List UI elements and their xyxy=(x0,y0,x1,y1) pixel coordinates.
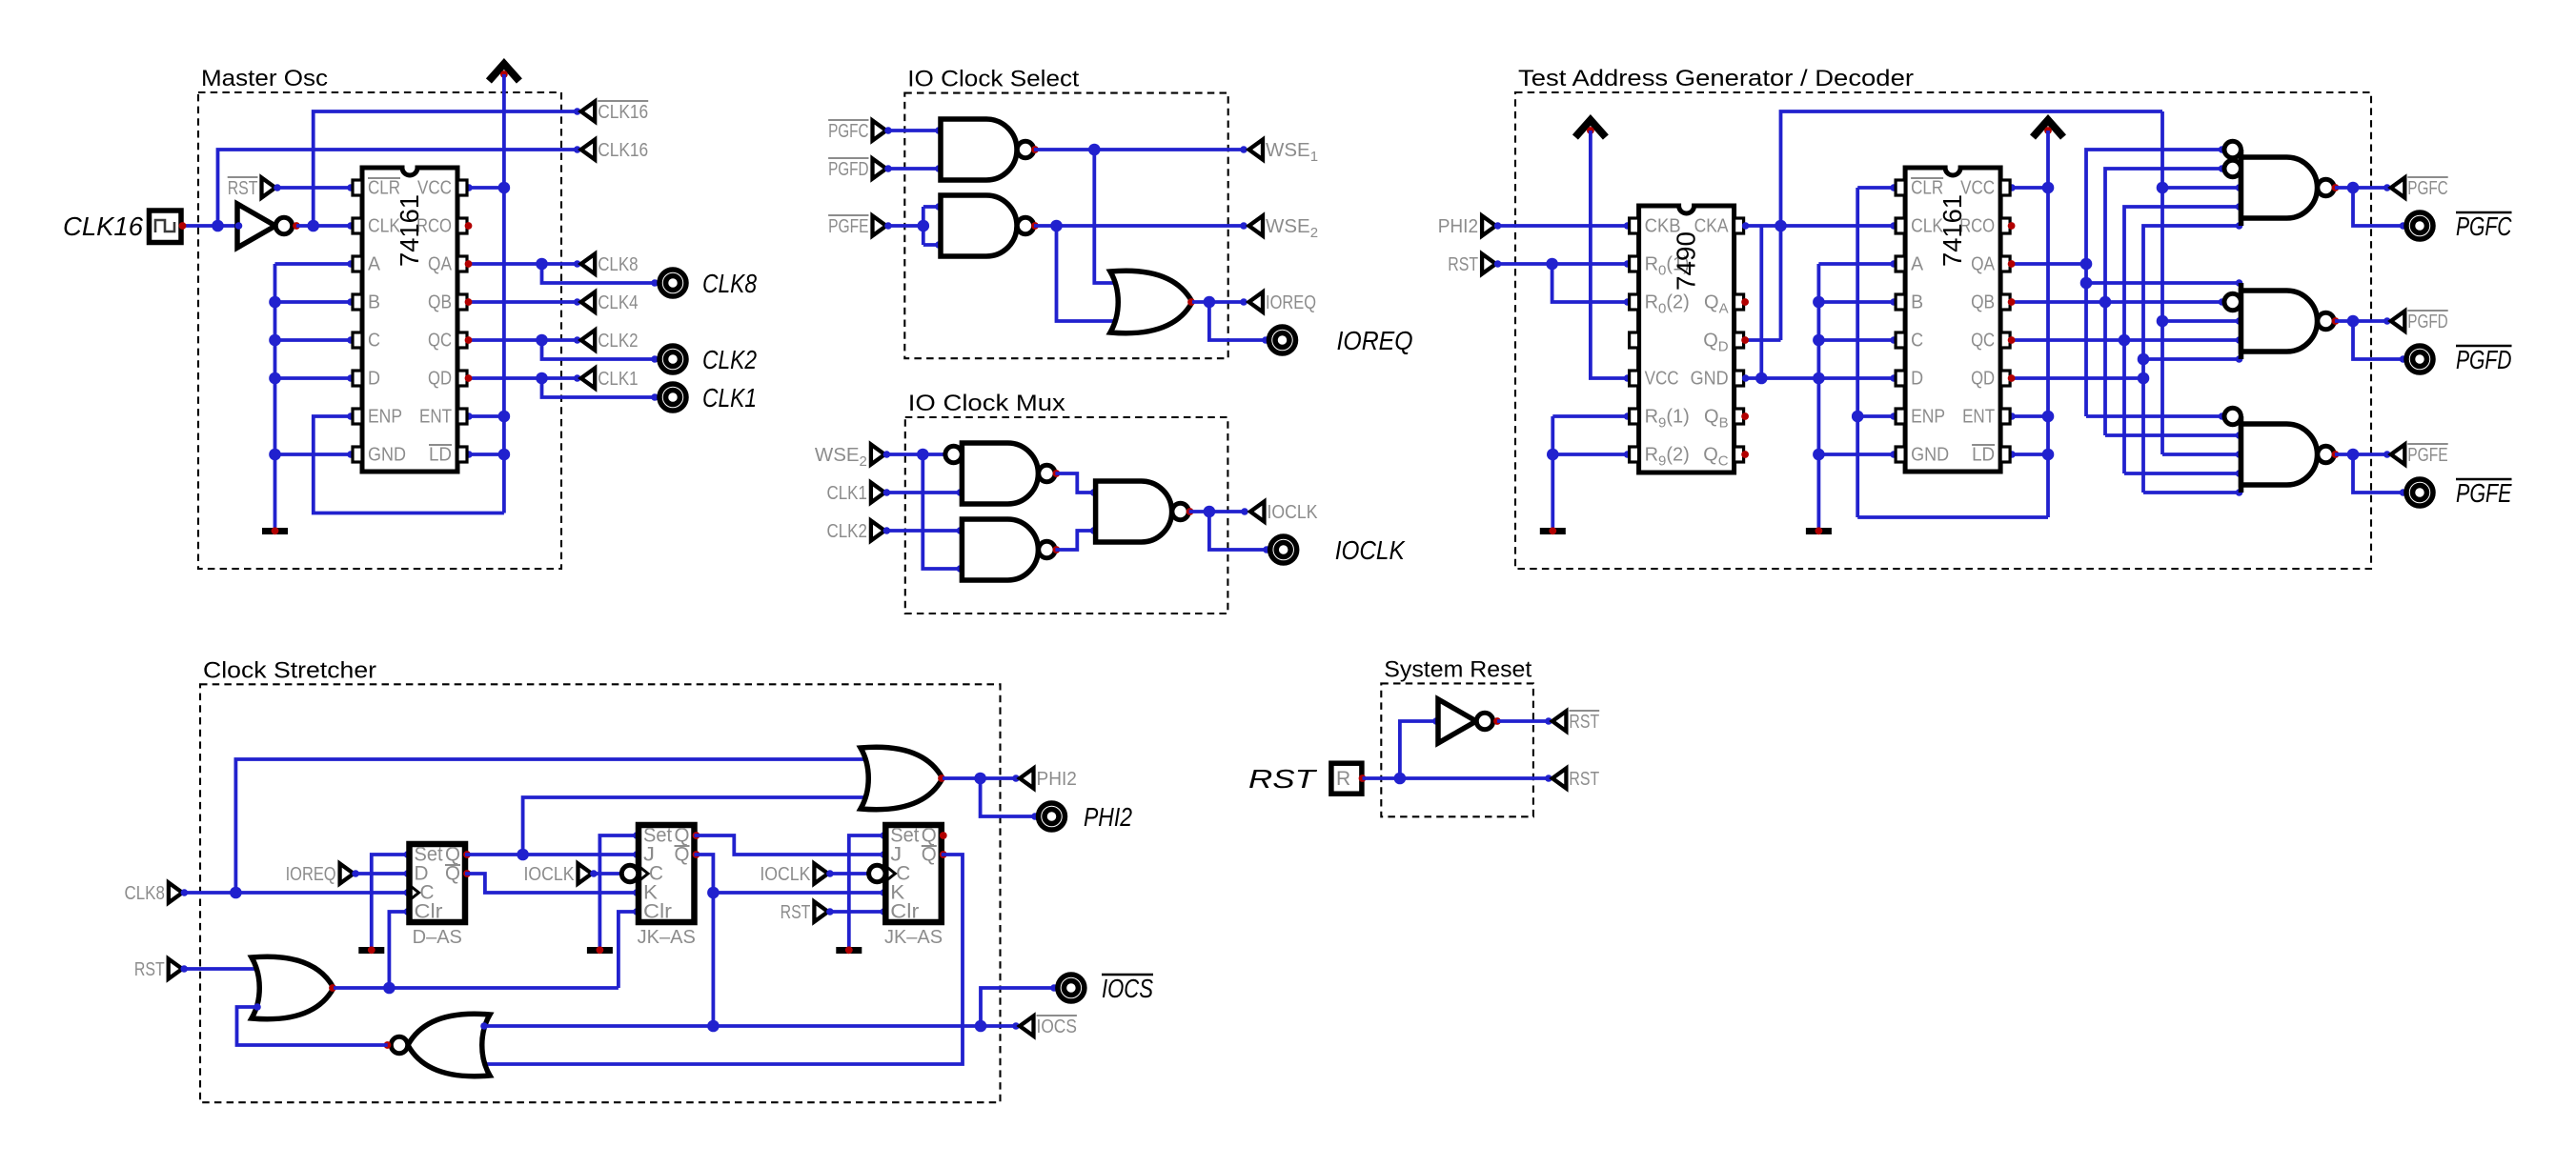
junction xyxy=(2157,182,2169,194)
NAND gate U3 (WSE2) xyxy=(941,195,1039,256)
wire nCLK16 to tunnel xyxy=(314,111,579,226)
svg-text:CLK4: CLK4 xyxy=(598,292,638,313)
net tunnel IOREQ (output) xyxy=(1249,292,1317,313)
wire IOREQ to ring xyxy=(1209,302,1268,340)
wire inverter to CLK pin xyxy=(296,224,353,228)
wire to NAND2 in2 xyxy=(923,243,941,247)
svg-text:IOREQ: IOREQ xyxy=(1266,292,1316,313)
svg-text:JK–AS: JK–AS xyxy=(638,927,696,948)
wire WSE1 xyxy=(1034,148,1246,151)
net tunnel PGFC (input) xyxy=(828,120,886,142)
wire IOCS to ring xyxy=(981,988,1056,1026)
junction xyxy=(2099,296,2112,309)
junction xyxy=(536,372,548,385)
OR gate U10 (clr OR) xyxy=(252,956,336,1019)
wire to JK2 K xyxy=(713,891,885,895)
wire CKA xyxy=(1744,224,1781,228)
wire GND row to D xyxy=(1744,376,1897,380)
section frame: Test Address Generator / Decoder xyxy=(1515,66,2371,569)
svg-text:74161: 74161 xyxy=(1937,194,1967,267)
wire QC to CLK2 ring xyxy=(542,340,658,359)
power symbol VCC supply (7490) xyxy=(1575,120,1606,137)
svg-text:R: R xyxy=(1336,768,1350,790)
junction xyxy=(2080,258,2093,271)
wire Q to J xyxy=(465,853,639,856)
label CLK2 port label xyxy=(702,345,757,374)
svg-text:IOCS: IOCS xyxy=(1037,1016,1077,1037)
ground (JK2) xyxy=(836,946,862,954)
wire F to P3 xyxy=(2162,453,2241,456)
svg-text:D–AS: D–AS xyxy=(413,927,462,948)
svg-text:Master Osc: Master Osc xyxy=(201,66,328,91)
wire to A xyxy=(275,262,354,266)
wire QD7490 riser + top bus xyxy=(1781,111,2163,340)
wire RST to OR xyxy=(182,967,259,971)
wire to PGFD ring xyxy=(2353,321,2405,359)
NAND gate P2 (PGFD decode) xyxy=(2224,283,2339,359)
wire CLK8 to OR in1 xyxy=(235,759,868,893)
wire LD xyxy=(2010,453,2048,456)
label PHI2 port label xyxy=(1084,802,1132,832)
pin QA 7490 unconnected xyxy=(1741,298,1749,306)
junction xyxy=(498,449,511,461)
ground (7490) xyxy=(1540,527,1566,534)
wire QD to CLK1 ring xyxy=(542,378,658,397)
wire F vertical xyxy=(2160,111,2164,454)
output port PGFD xyxy=(2406,346,2433,372)
net tunnel CLK1 (output) xyxy=(581,368,639,390)
wire JK1 Set to gnd xyxy=(599,835,639,947)
svg-text:QA: QA xyxy=(428,254,453,275)
svg-text:Clr: Clr xyxy=(890,901,919,923)
svg-text:B: B xyxy=(1911,292,1923,313)
junction xyxy=(1394,773,1407,785)
junction xyxy=(1546,258,1558,271)
wire PGFE split xyxy=(922,207,925,245)
wire CKA down xyxy=(1759,226,1763,378)
junction xyxy=(1775,220,1787,232)
junction xyxy=(498,182,511,194)
output port IOCS xyxy=(1058,975,1085,1001)
junction xyxy=(2157,315,2169,328)
svg-text:IO Clock Mux: IO Clock Mux xyxy=(908,391,1065,416)
svg-text:CLK16: CLK16 xyxy=(598,139,648,161)
wire to CLK xyxy=(1781,224,1897,228)
wire ABCD bus vertical xyxy=(1817,264,1821,528)
wire B out to C xyxy=(1055,531,1095,550)
junction xyxy=(383,982,396,995)
wire JK2 nQ to NOR2 xyxy=(482,855,963,1064)
wire QC xyxy=(467,338,542,342)
junction xyxy=(1813,449,1825,461)
net tunnel PHI2 (input) xyxy=(1438,215,1496,237)
net tunnel IOCLK (input) 1 xyxy=(524,863,593,885)
label CLK16 source label xyxy=(63,211,143,241)
wire QC to CLK2 tunnel xyxy=(542,338,579,342)
wire RST to CLR xyxy=(275,186,353,190)
output port CLK8 xyxy=(659,270,686,296)
svg-text:PHI2: PHI2 xyxy=(1438,215,1478,237)
wire RST to inverter xyxy=(1400,721,1438,778)
wire clock to inverter xyxy=(181,224,237,228)
net tunnel IOCS (output) xyxy=(1020,1016,1077,1037)
svg-text:CLK2: CLK2 xyxy=(598,330,638,352)
wire VCC pin xyxy=(2010,186,2048,190)
power symbol VCC supply (74161) xyxy=(2033,120,2063,137)
svg-text:QD: QD xyxy=(1971,369,1995,390)
svg-text:PHI2: PHI2 xyxy=(1084,802,1132,832)
wire QC to P2 xyxy=(2124,338,2241,342)
NAND gate U5 (mux A) xyxy=(945,443,1060,504)
junction xyxy=(269,449,281,461)
wire IOCLK to ring xyxy=(1209,512,1268,550)
junction xyxy=(2080,277,2093,290)
wire VCC pin xyxy=(467,186,504,190)
clock source CLK16 xyxy=(150,211,182,243)
junction xyxy=(517,849,529,861)
svg-text:ENT: ENT xyxy=(1962,407,1995,428)
wire CLK1 xyxy=(884,491,962,494)
wire D-FF Clr xyxy=(389,912,409,988)
svg-text:A: A xyxy=(368,254,381,275)
svg-text:CLK2: CLK2 xyxy=(827,520,867,542)
svg-text:CLK1: CLK1 xyxy=(598,368,638,390)
wire PGFE xyxy=(886,224,923,228)
wire PHI2 to CKB xyxy=(1496,224,1630,228)
flip-flop FF1 D-AS xyxy=(410,844,471,949)
label CLK1 port label xyxy=(702,383,757,412)
net tunnel CLK4 (output) xyxy=(581,292,639,313)
pin QC 7490 unconnected xyxy=(1741,451,1749,458)
output port CLK1 xyxy=(659,384,686,411)
net tunnel RST (input) xyxy=(134,958,182,980)
svg-text:GND: GND xyxy=(1911,445,1949,466)
svg-text:B: B xyxy=(368,292,380,313)
junction xyxy=(230,887,242,899)
svg-text:VCC: VCC xyxy=(1645,369,1679,390)
net tunnel RST (input) 2 xyxy=(781,901,828,923)
label PGFE port label xyxy=(2456,478,2512,508)
wire NOR2 out to OR in2 xyxy=(237,1007,388,1045)
wire QD xyxy=(2010,376,2143,380)
section frame: Clock Stretcher xyxy=(200,657,1001,1102)
wire RST to R0(1) xyxy=(1496,262,1630,266)
svg-text:LD: LD xyxy=(1972,445,1995,466)
svg-text:PGFE: PGFE xyxy=(828,215,868,237)
net tunnel RST (output) xyxy=(1552,768,1600,790)
junction CLK16-inv net xyxy=(307,220,319,232)
NAND gate U6 (mux B) xyxy=(962,519,1060,580)
output port IOCLK xyxy=(1270,536,1297,563)
svg-text:D: D xyxy=(1911,369,1923,390)
junction xyxy=(1852,411,1864,423)
junction xyxy=(536,258,548,271)
label IOCLK port label xyxy=(1335,535,1406,565)
wire IOREQ to D xyxy=(354,872,409,875)
ground (D-FF) xyxy=(358,946,384,954)
junction xyxy=(536,334,548,347)
svg-text:QA: QA xyxy=(1971,254,1996,275)
wire QD to P3 xyxy=(2143,491,2241,494)
net tunnel RST (input) xyxy=(228,177,275,199)
junction xyxy=(1813,296,1825,309)
wire QB vertical to P1 xyxy=(2105,169,2224,435)
svg-text:Clock Stretcher: Clock Stretcher xyxy=(203,657,376,683)
wire PGFC to NAND xyxy=(886,129,941,132)
svg-text:ENP: ENP xyxy=(368,407,402,428)
svg-text:GND: GND xyxy=(368,445,406,466)
wire R9(1) xyxy=(1552,414,1629,418)
junction xyxy=(2042,449,2055,461)
wire CLK8 to D-FF C xyxy=(182,891,409,895)
wire QB xyxy=(2010,300,2105,304)
wire QA to CLK8 tunnel xyxy=(542,262,579,266)
svg-text:RST: RST xyxy=(1448,253,1478,275)
wire to C xyxy=(1818,338,1896,342)
wire PHI2 to ring xyxy=(981,778,1037,816)
net tunnel WSE2 (input) xyxy=(815,444,885,470)
wire QB to CLK4 tunnel xyxy=(467,300,579,304)
junction xyxy=(2119,334,2131,347)
svg-text:QB: QB xyxy=(428,292,452,313)
wire Q to OR in2 xyxy=(523,797,868,855)
label RST button label xyxy=(1248,764,1317,794)
svg-text:IOCLK: IOCLK xyxy=(760,863,810,885)
wire QD7490 xyxy=(1744,338,1781,342)
junction xyxy=(2138,353,2150,366)
svg-text:System Reset: System Reset xyxy=(1384,656,1531,682)
wire ENP xyxy=(1857,414,1896,418)
net tunnel nCLK16 (output) xyxy=(581,101,649,123)
NAND gate P1 (PGFC decode) xyxy=(2224,141,2339,226)
label IOREQ port label xyxy=(1337,326,1413,355)
wire WSE2 xyxy=(1034,224,1246,228)
wire WSE1 to OR xyxy=(1094,150,1118,283)
label IOCS port label xyxy=(1102,974,1153,1003)
svg-text:IOCLK: IOCLK xyxy=(524,863,575,885)
label PGFC port label xyxy=(2456,211,2512,241)
output port PGFE xyxy=(2406,479,2433,506)
wire QD to P2 xyxy=(2143,357,2241,361)
ground (74161) xyxy=(1806,527,1832,534)
NOR gate (mirrored) U12 (IOCS NOR) xyxy=(384,1014,490,1076)
net tunnel CLK16 (output) xyxy=(581,139,649,161)
svg-text:CLK8: CLK8 xyxy=(702,269,757,298)
junction xyxy=(1755,372,1768,385)
section frame: IO Clock Select xyxy=(904,67,1227,359)
wire VCC net vertical 2 xyxy=(2046,131,2050,517)
wire QA xyxy=(2010,262,2086,266)
wire D-FF Set to gnd xyxy=(372,855,410,947)
wire QC vertical to P1 xyxy=(2124,207,2241,473)
wire IOCLK to JK1 C xyxy=(592,872,621,875)
svg-text:RST: RST xyxy=(1569,711,1599,733)
junction xyxy=(974,773,986,785)
wire PGFE out xyxy=(2335,453,2389,456)
wire PHI2 xyxy=(943,776,1018,780)
NAND gate P3 (PGFE decode) xyxy=(2224,408,2339,493)
svg-text:Clr: Clr xyxy=(643,901,672,923)
junction xyxy=(918,220,930,232)
net tunnel CLK2 (output) xyxy=(581,330,639,352)
wire CLK2 xyxy=(884,529,962,533)
svg-text:QB: QB xyxy=(1971,292,1995,313)
svg-text:Clr: Clr xyxy=(415,901,443,923)
wire CLR xyxy=(1857,186,1896,190)
net tunnel PHI2 (output) xyxy=(1020,768,1077,790)
wire QA to P3 xyxy=(2086,414,2224,418)
svg-text:IOCLK: IOCLK xyxy=(1268,501,1318,523)
junction xyxy=(269,334,281,347)
inverter reset inverter xyxy=(1438,699,1501,743)
inverter clock inverter xyxy=(237,204,300,248)
wire to GND pin xyxy=(275,453,354,456)
net tunnel CLK8 (input) xyxy=(125,882,183,904)
wire QB to P2 xyxy=(2105,300,2224,304)
svg-text:CLK16: CLK16 xyxy=(63,211,143,241)
wire QA vertical to P1 xyxy=(2086,150,2224,416)
wire RST to JK2 Clr xyxy=(828,910,885,914)
wire QC xyxy=(2010,338,2124,342)
net tunnel PGFD (output) xyxy=(2391,311,2448,332)
wire input bus xyxy=(274,264,277,528)
svg-text:JK–AS: JK–AS xyxy=(884,927,943,948)
wire WSE2 to NAND B xyxy=(923,454,962,569)
junction xyxy=(917,449,929,461)
OR gate U4 (IOREQ) xyxy=(1110,271,1195,333)
svg-text:QC: QC xyxy=(1971,331,1995,352)
wire to GND pin xyxy=(1818,453,1896,456)
svg-text:RST: RST xyxy=(134,958,165,980)
junction xyxy=(1547,449,1559,461)
wire QD vertical to P1 xyxy=(2143,226,2241,493)
wire PGFD to NAND xyxy=(886,167,941,171)
wire to D xyxy=(275,376,354,380)
svg-text:IO Clock Select: IO Clock Select xyxy=(907,67,1079,92)
svg-text:IOREQ: IOREQ xyxy=(1337,326,1413,355)
net tunnel PGFE (input) xyxy=(828,215,886,237)
pin QB 7490 unconnected xyxy=(1741,412,1749,420)
net tunnel PGFC (output) xyxy=(2391,177,2448,199)
svg-text:IOCLK: IOCLK xyxy=(1335,535,1406,565)
svg-text:RST: RST xyxy=(1569,768,1599,790)
wire VCC to ENP xyxy=(314,416,504,513)
flip-flop FF3 JK-AS xyxy=(869,825,947,949)
svg-text:ENT: ENT xyxy=(419,407,452,428)
svg-text:RST: RST xyxy=(1248,764,1317,794)
wire LD pin xyxy=(467,453,504,456)
svg-text:GND: GND xyxy=(1691,369,1729,390)
junction xyxy=(1813,334,1825,347)
wire to C xyxy=(275,338,354,342)
svg-text:ENP: ENP xyxy=(1911,407,1945,428)
svg-text:LD: LD xyxy=(429,445,452,466)
net tunnel PGFE (output) xyxy=(2391,444,2448,466)
push button R (RST input) xyxy=(1331,763,1367,794)
svg-text:QD: QD xyxy=(428,369,452,390)
junction xyxy=(1813,372,1825,385)
net tunnel IOREQ (input) xyxy=(286,863,355,885)
svg-text:C: C xyxy=(1911,331,1923,352)
svg-text:PGFE: PGFE xyxy=(2456,478,2512,508)
wire to B xyxy=(1818,300,1896,304)
wire F to P1 xyxy=(2162,186,2241,190)
junction CLK16 net xyxy=(212,220,224,232)
svg-text:IOCS: IOCS xyxy=(1102,974,1153,1003)
svg-text:74161: 74161 xyxy=(395,194,424,267)
wire CLK16 to tunnel xyxy=(218,150,579,226)
junction xyxy=(1204,296,1216,309)
wire JK1 nQ down xyxy=(695,855,714,1026)
wire CLR net vertical xyxy=(1856,188,1859,517)
svg-text:PHI2: PHI2 xyxy=(1037,768,1077,790)
wire R9 vertical xyxy=(1551,416,1554,528)
junction xyxy=(498,411,511,423)
output port PHI2 xyxy=(1039,803,1065,830)
output port PGFC xyxy=(2406,212,2433,239)
wire QC to P3 xyxy=(2124,472,2241,475)
wire nQ to K xyxy=(465,874,639,893)
power symbol VCC supply (Master Osc) xyxy=(489,64,519,81)
wire PGFD out xyxy=(2335,319,2389,323)
NAND gate U7 (mux C) xyxy=(1096,481,1194,542)
wire QA to CLK8 ring xyxy=(542,264,658,283)
section frame: IO Clock Mux xyxy=(905,391,1228,614)
junction xyxy=(975,1020,987,1033)
NAND gate U2 (WSE1) xyxy=(941,119,1039,180)
svg-text:PGFC: PGFC xyxy=(2456,211,2512,241)
wire clr net xyxy=(334,986,619,990)
wire A out to C xyxy=(1055,473,1095,493)
wire F to P2 xyxy=(2162,319,2241,323)
net tunnel CLK8 (output) xyxy=(581,253,639,275)
svg-text:D: D xyxy=(368,369,380,390)
svg-text:CLK8: CLK8 xyxy=(125,882,165,904)
wire clr to JK1 Clr xyxy=(619,912,639,988)
wire VCC net vertical xyxy=(502,74,506,513)
svg-text:7490: 7490 xyxy=(1672,231,1701,291)
section frame: System Reset xyxy=(1381,656,1533,816)
svg-text:RST: RST xyxy=(781,901,811,923)
wire QB to P3 xyxy=(2105,433,2241,437)
svg-text:PGFC: PGFC xyxy=(828,120,869,142)
wire to PGFE ring xyxy=(2353,454,2405,493)
OR gate U11 (PHI2 OR) xyxy=(861,747,945,810)
junction xyxy=(269,372,281,385)
wire to B xyxy=(275,300,354,304)
svg-text:CLK16: CLK16 xyxy=(598,101,648,123)
IC U1 74161 (Master Osc) xyxy=(353,168,467,472)
junction xyxy=(2347,315,2360,328)
svg-text:QC: QC xyxy=(428,331,452,352)
junction xyxy=(2347,449,2360,461)
wire QA xyxy=(467,262,542,266)
wire QD xyxy=(467,376,542,380)
svg-text:CLK2: CLK2 xyxy=(702,345,757,374)
svg-text:IOREQ: IOREQ xyxy=(286,863,336,885)
wire VCC to 7490 xyxy=(1591,131,1630,378)
svg-text:PGFD: PGFD xyxy=(828,158,868,180)
svg-text:PGFE: PGFE xyxy=(2407,444,2447,466)
wire QA to P2 xyxy=(2086,281,2241,285)
wire JK1 Q to JK2 J xyxy=(695,835,886,855)
IC U9 74161 xyxy=(1896,168,2010,472)
svg-text:CLK8: CLK8 xyxy=(598,253,638,275)
junction xyxy=(1204,506,1216,518)
output port IOREQ xyxy=(1269,327,1296,353)
IC U8 7490 xyxy=(1630,206,1744,473)
net tunnel CLK2 (input) xyxy=(827,520,885,542)
